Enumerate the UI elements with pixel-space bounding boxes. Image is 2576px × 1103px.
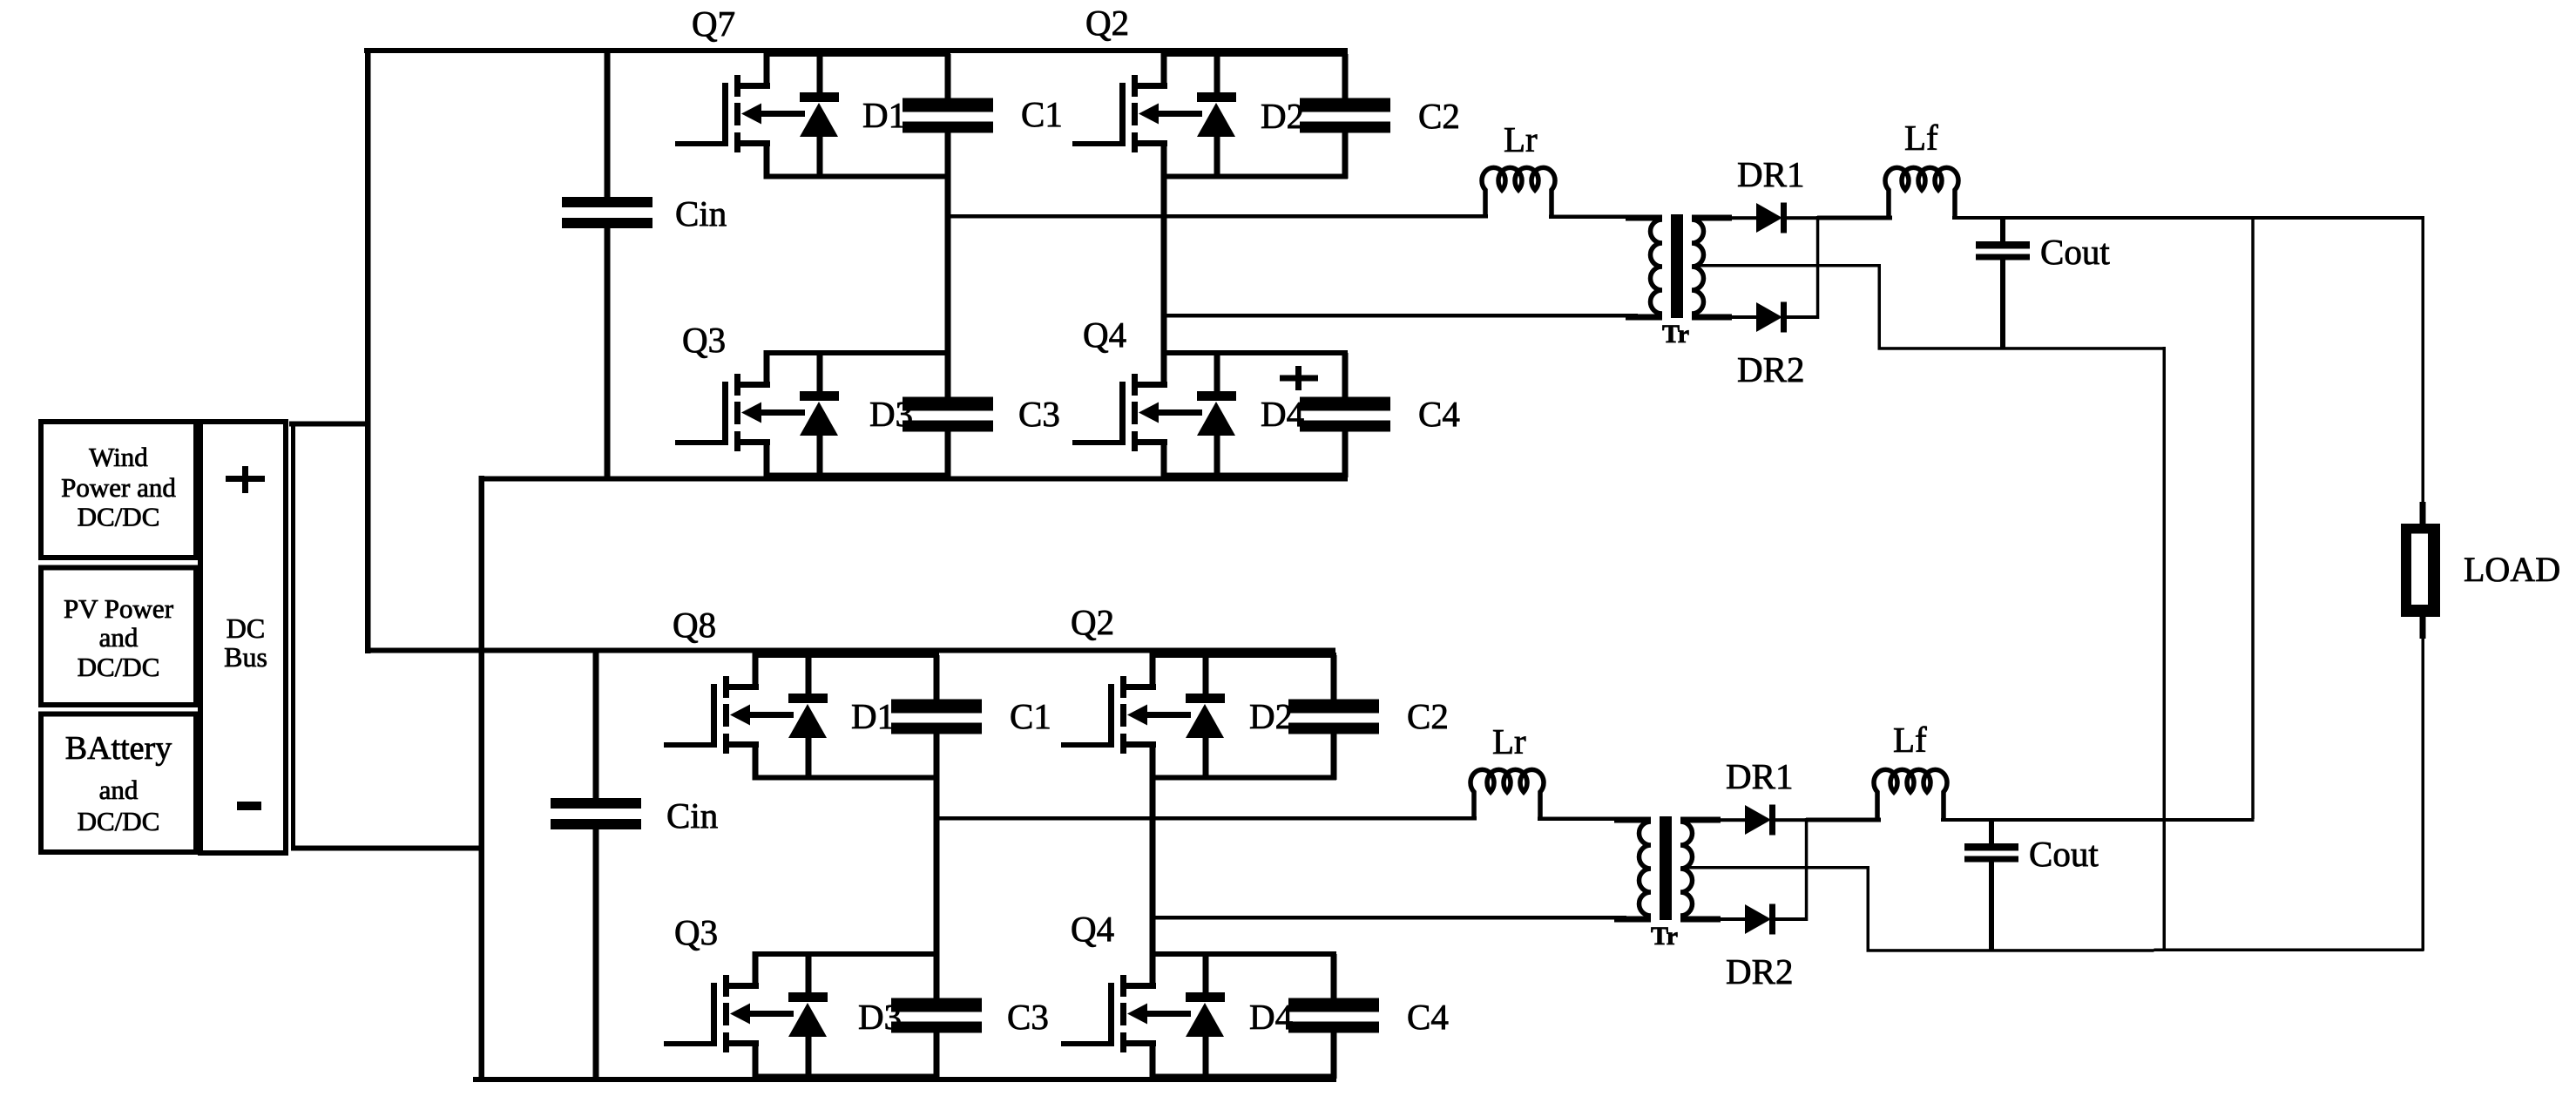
svg-text:Q7: Q7 <box>692 3 735 44</box>
svg-text:D4: D4 <box>1249 997 1293 1037</box>
svg-text:C3: C3 <box>1007 997 1049 1037</box>
svg-text:D2: D2 <box>1249 696 1293 736</box>
transistor Q7 leg with body diode D1 and capacitor C1 <box>675 51 993 179</box>
svg-text:C1: C1 <box>1021 94 1063 134</box>
svg-text:C2: C2 <box>1418 96 1460 136</box>
wire LOAD bottom stub <box>2420 615 2426 639</box>
transistor Q8 leg bridge2 with body diode D1 and capacitor C1 <box>664 653 982 781</box>
wire minus bus vertical <box>479 476 485 1082</box>
svg-text:D1: D1 <box>862 95 906 135</box>
wire common bottom rail <box>2154 949 2424 952</box>
svg-text:C1: C1 <box>1010 696 1051 736</box>
svg-text:and: and <box>99 775 139 805</box>
output network 1: Lr Tr DR1 DR2 Lf Cout <box>945 118 2166 389</box>
DC Bus box <box>200 422 286 853</box>
transistor Q4 leg bridge2 with body diode D4 and capacitor C4 <box>1061 951 1379 1079</box>
source block PV Power and DC/DC <box>41 568 196 706</box>
svg-text:Wind: Wind <box>89 442 148 472</box>
svg-text:Power and: Power and <box>61 472 176 503</box>
svg-text:Cin: Cin <box>675 193 727 233</box>
transistor Q3 leg with body diode D3 and capacitor C3 <box>675 350 993 478</box>
svg-text:C3: C3 <box>1018 394 1060 434</box>
svg-text:and: and <box>99 622 139 653</box>
wire output2 top line to junction <box>2132 818 2255 822</box>
svg-text:Q4: Q4 <box>1083 315 1126 355</box>
svg-text:Cin: Cin <box>666 795 718 836</box>
wire LOAD top lead <box>2422 216 2425 504</box>
transistor Q2 leg bridge2 with body diode D2 and capacitor C2 <box>1061 653 1379 781</box>
wire output1 return vertical <box>2163 347 2167 951</box>
svg-text:D1: D1 <box>851 696 895 736</box>
svg-text:D4: D4 <box>1261 394 1304 434</box>
source block BAttery and DC/DC <box>41 714 196 853</box>
svg-text:DC/DC: DC/DC <box>78 806 160 836</box>
wire bridge1 top rail <box>364 48 1348 53</box>
wire bridge2 right midpoint vertical <box>1150 775 1156 957</box>
wire bridge1 right midpoint vertical <box>1161 174 1167 355</box>
wire output1 top line to LOAD <box>2143 216 2424 220</box>
svg-text:C2: C2 <box>1407 696 1449 736</box>
svg-text:DC/DC: DC/DC <box>78 502 160 532</box>
svg-text:D2: D2 <box>1261 96 1304 136</box>
transistor Q3 leg bridge2 with body diode D3 and capacitor C3 <box>664 951 982 1079</box>
svg-text:C4: C4 <box>1407 997 1449 1037</box>
svg-text:Bus: Bus <box>224 641 267 673</box>
wire bridge2 bottom rail <box>473 1077 1336 1082</box>
wire bridge1 left midpoint vertical <box>945 174 951 355</box>
svg-text:C4: C4 <box>1418 394 1460 434</box>
capacitor Cin bridge1 <box>605 51 611 199</box>
source block Wind Power and DC/DC <box>41 422 196 558</box>
svg-text:LOAD: LOAD <box>2464 550 2560 589</box>
output network 2: Lr Tr DR1 DR2 Lf Cout <box>934 720 2154 991</box>
wire DC bus right vertical <box>291 422 295 851</box>
wire minus bus horizontal <box>291 846 482 851</box>
svg-text:PV Power: PV Power <box>64 593 174 624</box>
label minus terminal <box>237 802 261 810</box>
svg-text:Q3: Q3 <box>674 912 718 952</box>
svg-text:Q2: Q2 <box>1071 602 1114 642</box>
svg-text:D3: D3 <box>869 394 913 434</box>
svg-text:Q4: Q4 <box>1071 909 1114 949</box>
wire bridge2 left midpoint vertical <box>934 775 940 957</box>
svg-text:Q2: Q2 <box>1085 3 1129 43</box>
transistor Q4 leg with body diode D4 and capacitor C4 <box>1072 350 1390 478</box>
wire LOAD bottom lead <box>2422 637 2425 951</box>
svg-text:DC: DC <box>226 612 265 644</box>
svg-text:BAttery: BAttery <box>65 730 172 767</box>
capacitor Cin bridge2 <box>593 653 599 800</box>
svg-text:Q8: Q8 <box>673 605 716 645</box>
wire bridge2 top rail <box>365 648 1335 653</box>
transistor Q2 leg with body diode D2 and capacitor C2 <box>1072 51 1390 179</box>
svg-text:D3: D3 <box>858 997 902 1037</box>
label plus C4 polarity <box>1280 376 1318 382</box>
svg-text:DC/DC: DC/DC <box>78 652 160 682</box>
wire output2 riser vertical <box>2251 216 2255 819</box>
wire plus bus vertical <box>365 48 371 653</box>
svg-text:Q3: Q3 <box>682 320 726 360</box>
wire LOAD top stub <box>2420 502 2426 525</box>
wire plus bus horizontal <box>289 422 368 427</box>
label plus terminal <box>226 476 265 482</box>
resistor LOAD body <box>2401 524 2440 617</box>
wire bridge1 bottom rail <box>479 477 1348 482</box>
